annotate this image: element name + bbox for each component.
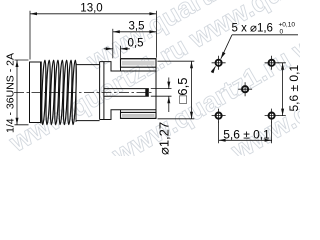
svg-text:5,6 ± 0,1: 5,6 ± 0,1 — [223, 128, 270, 142]
svg-text:+0,10: +0,10 — [279, 22, 296, 29]
svg-text:□6,5: □6,5 — [175, 78, 190, 104]
svg-text:5 x ⌀1,6: 5 x ⌀1,6 — [232, 23, 273, 35]
svg-text:3,5: 3,5 — [129, 21, 145, 33]
svg-text:13,0: 13,0 — [80, 3, 102, 15]
svg-text:⌀1,27: ⌀1,27 — [156, 122, 171, 155]
svg-text:0,5: 0,5 — [128, 37, 144, 49]
svg-text:1/4 - 36UNS - 2A: 1/4 - 36UNS - 2A — [5, 53, 17, 133]
svg-text:5,6 ± 0,1: 5,6 ± 0,1 — [287, 65, 300, 112]
